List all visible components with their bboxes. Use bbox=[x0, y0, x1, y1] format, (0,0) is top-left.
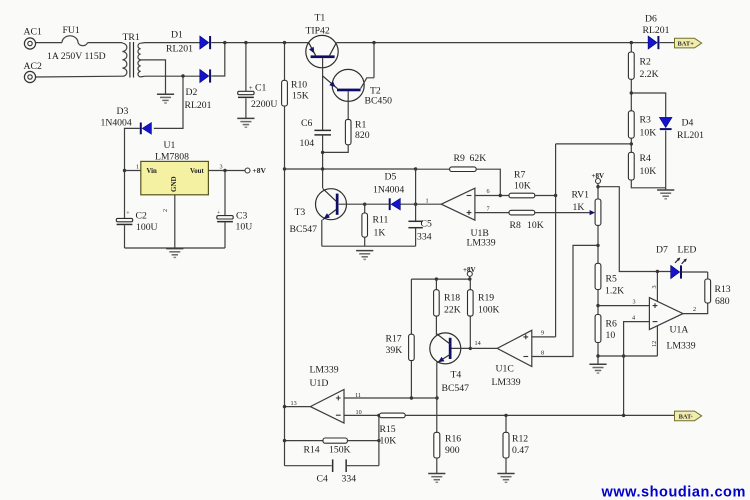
svg-text:R8: R8 bbox=[510, 220, 521, 231]
svg-text:1K: 1K bbox=[573, 202, 585, 213]
junction bbox=[283, 439, 286, 442]
wire R7 to divider bbox=[535, 195, 556, 197]
diode D1 RL201 bbox=[166, 30, 211, 55]
junction bbox=[414, 203, 417, 206]
svg-text:R12: R12 bbox=[512, 434, 528, 445]
junction bbox=[468, 277, 471, 280]
svg-text:10K: 10K bbox=[380, 436, 397, 447]
wire U1A output to R13 bbox=[683, 303, 708, 314]
wire node to U1C inverting input bbox=[532, 245, 598, 356]
wire D1 cathode to rail bbox=[211, 42, 225, 44]
junction bbox=[410, 396, 413, 399]
wire D2 cathode up to rail bbox=[211, 43, 225, 76]
resistor R2 2.2K bbox=[628, 43, 658, 111]
junction bbox=[630, 142, 633, 145]
svg-text:2.2K: 2.2K bbox=[640, 69, 659, 80]
svg-text:+8V: +8V bbox=[592, 172, 605, 180]
svg-text:BC450: BC450 bbox=[365, 96, 393, 107]
svg-text:R10: R10 bbox=[291, 80, 307, 91]
svg-text:RL201: RL201 bbox=[677, 130, 704, 141]
resistor R10 15K bbox=[282, 43, 309, 106]
svg-text:900: 900 bbox=[445, 445, 460, 456]
wire fuse to TR1 primary bbox=[88, 42, 123, 44]
wire R6 node to U1A ground pin bbox=[598, 355, 657, 357]
svg-text:820: 820 bbox=[355, 130, 370, 141]
wire U1A inverting input bbox=[624, 322, 650, 416]
svg-text:LM339: LM339 bbox=[492, 377, 521, 388]
junction bbox=[223, 41, 226, 44]
junction bbox=[435, 396, 438, 399]
transformer TR1 bbox=[122, 32, 140, 78]
svg-text:RV1: RV1 bbox=[572, 190, 590, 201]
diode D2 RL201 bbox=[185, 69, 212, 111]
wire secondary center tap bbox=[141, 60, 166, 94]
capacitor C2 100U bbox=[116, 210, 157, 248]
svg-text:R11: R11 bbox=[373, 215, 389, 226]
svg-text:13: 13 bbox=[291, 400, 297, 407]
resistor R12 0.47 bbox=[503, 415, 529, 473]
junction bbox=[123, 169, 126, 172]
resistor R1 820 bbox=[345, 119, 369, 144]
svg-text:100K: 100K bbox=[478, 305, 500, 316]
svg-text:D4: D4 bbox=[682, 118, 694, 129]
ground below R16 bbox=[428, 474, 445, 483]
svg-text:10K: 10K bbox=[514, 181, 531, 192]
wire U1C output to T4 base bbox=[470, 347, 497, 349]
svg-text:U1A: U1A bbox=[670, 325, 689, 336]
junction bbox=[596, 185, 599, 188]
capacitor C1 2200U bbox=[238, 43, 278, 119]
svg-text:2: 2 bbox=[162, 209, 169, 212]
wire U1B non-inverting input bbox=[475, 212, 509, 214]
ground below R6 bbox=[589, 364, 606, 373]
junction bbox=[504, 414, 507, 417]
wire R19 to T4 base node bbox=[469, 316, 471, 348]
wire R3 R4 node to comparator divider bbox=[556, 143, 632, 145]
svg-text:R1: R1 bbox=[355, 120, 366, 131]
svg-text:C5: C5 bbox=[421, 219, 432, 230]
svg-text:R18: R18 bbox=[444, 293, 460, 304]
junction bbox=[244, 41, 247, 44]
capacitor C6 104 bbox=[300, 118, 332, 149]
diode D6 RL201 bbox=[643, 14, 670, 50]
junction bbox=[223, 169, 226, 172]
wire U1A ground pin 12 bbox=[656, 326, 658, 356]
svg-text:T3: T3 bbox=[295, 207, 306, 218]
wire +8V to RV1 bbox=[597, 184, 599, 200]
potentiometer RV1 1K bbox=[572, 190, 601, 226]
resistor R16 900 bbox=[434, 432, 462, 473]
svg-text:3: 3 bbox=[220, 164, 223, 171]
svg-text:22K: 22K bbox=[444, 305, 461, 316]
svg-text:R7: R7 bbox=[514, 170, 525, 181]
wire +8V rail to R17 R18 R19 bbox=[411, 276, 469, 279]
svg-text:4: 4 bbox=[632, 314, 635, 321]
junction bbox=[435, 277, 438, 280]
svg-text:+8V: +8V bbox=[253, 166, 267, 175]
op-amp U1C LM339 bbox=[475, 330, 545, 389]
svg-text:R2: R2 bbox=[640, 57, 651, 68]
svg-text:1K: 1K bbox=[374, 228, 386, 239]
node BAT- bbox=[675, 411, 702, 421]
resistor R19 100K bbox=[468, 279, 500, 316]
svg-text:150K: 150K bbox=[329, 445, 351, 456]
diode D3 1N4004 bbox=[101, 106, 152, 134]
svg-text:100U: 100U bbox=[136, 222, 158, 233]
wire top rail left of T1 bbox=[225, 42, 309, 44]
wire to R9 bbox=[416, 168, 450, 170]
resistor R14 150K bbox=[285, 438, 379, 456]
svg-text:R15: R15 bbox=[380, 424, 396, 435]
wire T2 base lead to R1 bbox=[347, 91, 349, 119]
svg-text:1N4004: 1N4004 bbox=[373, 185, 404, 196]
wire R1 bottom to C6 net bbox=[323, 145, 349, 153]
junction bbox=[283, 405, 286, 408]
svg-text:RL201: RL201 bbox=[185, 100, 212, 111]
svg-text:104: 104 bbox=[300, 138, 315, 149]
svg-text:10: 10 bbox=[606, 330, 616, 341]
svg-text:R13: R13 bbox=[715, 284, 731, 295]
svg-text:D1: D1 bbox=[171, 30, 183, 41]
svg-text:C3: C3 bbox=[236, 210, 247, 221]
resistor R8 10K bbox=[509, 210, 544, 231]
junction bbox=[414, 167, 417, 170]
junction bbox=[656, 270, 659, 273]
svg-text:U1C: U1C bbox=[496, 364, 514, 375]
svg-text:C6: C6 bbox=[301, 118, 312, 129]
junction bbox=[630, 91, 633, 94]
junction bbox=[622, 414, 625, 417]
wire D7 cathode to R13 bbox=[682, 271, 708, 273]
wire D6 to BAT+ bbox=[660, 42, 675, 44]
wire R9 to U1B inverting input bbox=[476, 169, 500, 195]
junction bbox=[554, 194, 557, 197]
wire R6 bottom bbox=[597, 343, 599, 365]
wire Vout to +8V terminal bbox=[208, 170, 245, 172]
svg-text:39K: 39K bbox=[386, 345, 403, 356]
svg-text:8: 8 bbox=[541, 350, 544, 357]
wire +8V branch to U1A supply and D7 bbox=[598, 187, 671, 272]
junction bbox=[499, 194, 502, 197]
junction bbox=[321, 167, 324, 170]
resistor R11 1K bbox=[362, 204, 389, 246]
wire R2 R3 node to D4 bbox=[631, 93, 665, 117]
svg-text:LM339: LM339 bbox=[667, 341, 696, 352]
ground below regulator bbox=[166, 249, 183, 258]
capacitor C5 334 bbox=[408, 169, 432, 246]
junction bbox=[283, 167, 286, 170]
svg-text:D5: D5 bbox=[385, 172, 397, 183]
svg-text:15K: 15K bbox=[292, 91, 309, 102]
svg-text:RL201: RL201 bbox=[166, 44, 193, 55]
wire U1 GND pin down bbox=[174, 195, 176, 248]
op-amp U1A LM339 bbox=[632, 285, 696, 351]
svg-text:R9: R9 bbox=[454, 153, 465, 164]
junction bbox=[469, 347, 472, 350]
svg-text:R4: R4 bbox=[640, 153, 651, 164]
svg-text:1: 1 bbox=[136, 164, 139, 171]
svg-text:+: + bbox=[126, 211, 130, 217]
svg-text:BAT+: BAT+ bbox=[678, 41, 695, 48]
junction bbox=[363, 203, 366, 206]
svg-text:1A 250V 115D: 1A 250V 115D bbox=[47, 51, 106, 62]
terminal AC1 bbox=[24, 27, 42, 50]
ground below R11 bbox=[356, 251, 373, 260]
wire T4 base bbox=[452, 347, 471, 349]
svg-text:AC2: AC2 bbox=[24, 61, 42, 72]
svg-text:6: 6 bbox=[487, 188, 490, 195]
svg-text:C1: C1 bbox=[255, 83, 266, 94]
svg-text:BAT-: BAT- bbox=[679, 413, 693, 420]
svg-text:LED: LED bbox=[678, 245, 697, 256]
svg-text:2200U: 2200U bbox=[251, 99, 277, 110]
svg-text:C2: C2 bbox=[136, 210, 147, 221]
svg-text:Vin: Vin bbox=[147, 168, 158, 175]
svg-text:R17: R17 bbox=[386, 334, 402, 345]
svg-text:U1: U1 bbox=[164, 140, 176, 151]
svg-text:R16: R16 bbox=[445, 434, 461, 445]
ground below D4 and R4 bbox=[657, 190, 674, 199]
wire feedback right vertical bbox=[378, 415, 380, 465]
resistor R15 10K bbox=[380, 413, 406, 446]
wire R15 to BAT- rail bbox=[405, 414, 674, 416]
wire AC1 to fuse bbox=[36, 42, 62, 44]
transistor T3 BC547 bbox=[290, 189, 347, 236]
svg-text:9: 9 bbox=[541, 330, 544, 337]
svg-text:TR1: TR1 bbox=[123, 32, 140, 43]
svg-text:LM7808: LM7808 bbox=[155, 152, 189, 163]
wire C6 to output net bbox=[322, 135, 324, 169]
wire D5 anode to U1B output bbox=[401, 203, 442, 205]
resistor R17 39K bbox=[386, 279, 415, 398]
svg-text:www.shoudian.com: www.shoudian.com bbox=[601, 485, 746, 500]
svg-text:T1: T1 bbox=[315, 13, 326, 24]
resistor R13 680 bbox=[705, 272, 731, 307]
svg-text:R19: R19 bbox=[478, 293, 494, 304]
svg-text:10U: 10U bbox=[236, 222, 253, 233]
svg-text:BC547: BC547 bbox=[442, 383, 470, 394]
wire U1C pin9 to divider bbox=[532, 336, 556, 338]
wire secondary top to D1 bbox=[141, 42, 200, 45]
svg-text:GND: GND bbox=[170, 176, 178, 192]
wire D4 cathode down to ground bbox=[665, 131, 667, 190]
junction bbox=[596, 354, 599, 357]
wire RV1 bottom to R5 bbox=[597, 225, 599, 263]
svg-text:D6: D6 bbox=[645, 14, 657, 25]
op-amp U1D LM339 bbox=[291, 365, 362, 424]
resistor R7 10K bbox=[509, 170, 535, 198]
wire U1A supply pin 3 bbox=[656, 272, 658, 302]
wire divider sense vertical bbox=[555, 144, 557, 337]
svg-text:D7: D7 bbox=[656, 245, 668, 256]
junction bbox=[596, 244, 599, 247]
svg-text:334: 334 bbox=[342, 474, 357, 485]
junction bbox=[377, 439, 380, 442]
junction bbox=[622, 354, 625, 357]
junction bbox=[181, 74, 184, 77]
wire T2 collector to rail bbox=[373, 43, 375, 78]
op-amp U1B LM339 bbox=[426, 188, 496, 248]
svg-text:334: 334 bbox=[417, 232, 432, 243]
svg-text:62K: 62K bbox=[470, 153, 487, 164]
transistor T2 BC450 bbox=[323, 69, 392, 106]
diode D7 LED bbox=[656, 245, 696, 279]
svg-text:Vout: Vout bbox=[190, 168, 204, 175]
wire Vin to regulator bbox=[125, 170, 141, 172]
fuse FU1 bbox=[47, 25, 106, 62]
svg-text:D2: D2 bbox=[186, 87, 198, 98]
wire R10 bottom down to U1D output bbox=[284, 106, 286, 466]
svg-text:10K: 10K bbox=[640, 128, 657, 139]
ground center tap bbox=[157, 94, 174, 103]
svg-text:14: 14 bbox=[475, 340, 481, 347]
svg-text:BC547: BC547 bbox=[290, 224, 318, 235]
resistor R6 10 bbox=[595, 315, 617, 343]
wire R18 to T4 collector bbox=[435, 316, 437, 335]
node BAT+ bbox=[675, 38, 702, 48]
wire comparator output net horizontal bbox=[285, 168, 416, 170]
svg-text:R14: R14 bbox=[304, 445, 320, 456]
wire filter ground rail bbox=[125, 247, 226, 249]
wire D2 anode junction down to D3 bbox=[154, 76, 183, 128]
resistor R5 1.2K bbox=[595, 263, 624, 296]
svg-text:10K: 10K bbox=[640, 166, 657, 177]
wire T1 base lead down to C6 bbox=[322, 58, 324, 130]
RV1 wiper arrowhead bbox=[590, 210, 595, 215]
svg-text:2: 2 bbox=[693, 306, 696, 313]
power terminal +8V at regulator output bbox=[245, 168, 250, 173]
svg-text:3: 3 bbox=[633, 299, 636, 306]
svg-text:FU1: FU1 bbox=[63, 25, 80, 36]
svg-text:10K: 10K bbox=[527, 220, 544, 231]
wire T3 collector up bbox=[322, 169, 324, 188]
svg-text:RL201: RL201 bbox=[643, 25, 670, 36]
junction bbox=[596, 304, 599, 307]
junction bbox=[321, 151, 324, 154]
transistor T4 BC547 bbox=[430, 333, 469, 394]
svg-text:0.47: 0.47 bbox=[512, 445, 529, 456]
wire T3 base to node bbox=[339, 203, 365, 205]
terminal AC2 bbox=[24, 61, 42, 83]
wire T3 emitter down bbox=[321, 220, 323, 246]
svg-text:C4: C4 bbox=[317, 474, 328, 485]
svg-text:R6: R6 bbox=[606, 319, 617, 330]
junction bbox=[377, 414, 380, 417]
svg-text:T4: T4 bbox=[451, 370, 462, 381]
diode D5 1N4004 bbox=[365, 172, 405, 211]
svg-text:LM339: LM339 bbox=[310, 365, 339, 376]
svg-text:LM339: LM339 bbox=[467, 238, 496, 249]
svg-text:7: 7 bbox=[487, 205, 490, 212]
wire AC2 to TR1 primary bbox=[36, 75, 123, 78]
wire U1B inverting input bbox=[475, 195, 509, 197]
junction bbox=[630, 41, 633, 44]
wire U1D inverting input pin 10 bbox=[344, 414, 379, 416]
ground below C1 bbox=[237, 118, 254, 127]
resistor R3 10K bbox=[628, 111, 656, 153]
wire U1D non-inverting input pin 11 bbox=[344, 397, 437, 399]
svg-text:AC1: AC1 bbox=[24, 27, 42, 38]
power terminal +8V for RV1 bbox=[596, 179, 601, 184]
svg-text:1N4004: 1N4004 bbox=[101, 118, 132, 129]
wire T4 emitter down to R16 bbox=[436, 362, 438, 432]
wire secondary bottom to D2 bbox=[141, 75, 200, 78]
svg-text:R3: R3 bbox=[640, 115, 651, 126]
wire R5 R6 node to U1A non-inverting input bbox=[598, 305, 649, 307]
junction bbox=[372, 41, 375, 44]
svg-text:+: + bbox=[249, 84, 253, 92]
diode D4 RL201 bbox=[659, 117, 704, 141]
resistor R9 62K bbox=[450, 153, 487, 172]
svg-text:1.2K: 1.2K bbox=[605, 286, 624, 297]
svg-text:1: 1 bbox=[426, 198, 429, 205]
wire emitter rail bottom bbox=[322, 245, 416, 247]
svg-text:R5: R5 bbox=[606, 274, 617, 285]
regulator U1 LM7808 bbox=[136, 140, 223, 212]
svg-text:D3: D3 bbox=[117, 106, 129, 117]
capacitor C3 10U bbox=[217, 171, 252, 249]
svg-text:U1D: U1D bbox=[310, 378, 329, 389]
wire U1D output to feedback net bbox=[285, 406, 311, 408]
wire D3 cathode to U1 Vin bbox=[125, 128, 140, 218]
svg-text:TIP42: TIP42 bbox=[306, 26, 330, 37]
wire R8 to RV1 wiper bbox=[535, 212, 592, 214]
resistor R4 10K bbox=[628, 152, 665, 188]
svg-text:+8V: +8V bbox=[463, 266, 476, 274]
wire top rail T1 to D6 bbox=[336, 42, 648, 44]
wire R5 to R6 bbox=[597, 290, 599, 315]
power terminal +8V for T4 stage bbox=[467, 271, 472, 276]
transistor T1 TIP42 bbox=[306, 13, 339, 68]
junction bbox=[283, 41, 286, 44]
ground below R12 bbox=[497, 474, 514, 483]
capacitor C4 334 bbox=[285, 459, 379, 484]
resistor R18 22K bbox=[434, 279, 461, 316]
svg-text:680: 680 bbox=[715, 296, 730, 307]
